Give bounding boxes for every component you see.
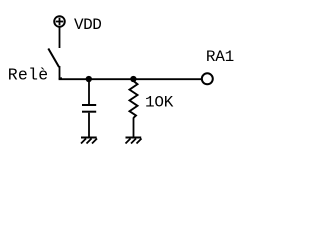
wire switch to node A — [60, 66, 63, 78]
junction node B — [130, 76, 136, 82]
resistor R1 10K — [130, 79, 138, 137]
switch SW1 blade — [48, 49, 59, 68]
svg-text:Relè: Relè — [8, 65, 48, 84]
ground for resistor — [126, 138, 142, 144]
ground for capacitor — [81, 138, 97, 144]
power VDD symbol — [54, 16, 65, 27]
svg-text:VDD: VDD — [74, 16, 102, 34]
wire main horizontal — [59, 78, 201, 80]
svg-text:RA1: RA1 — [206, 48, 234, 66]
junction node A — [86, 76, 92, 82]
wire VDD to switch — [59, 28, 61, 49]
terminal RA1 pin circle — [202, 73, 213, 84]
svg-text:1OK: 1OK — [145, 94, 174, 112]
capacitor C1 — [82, 79, 96, 137]
